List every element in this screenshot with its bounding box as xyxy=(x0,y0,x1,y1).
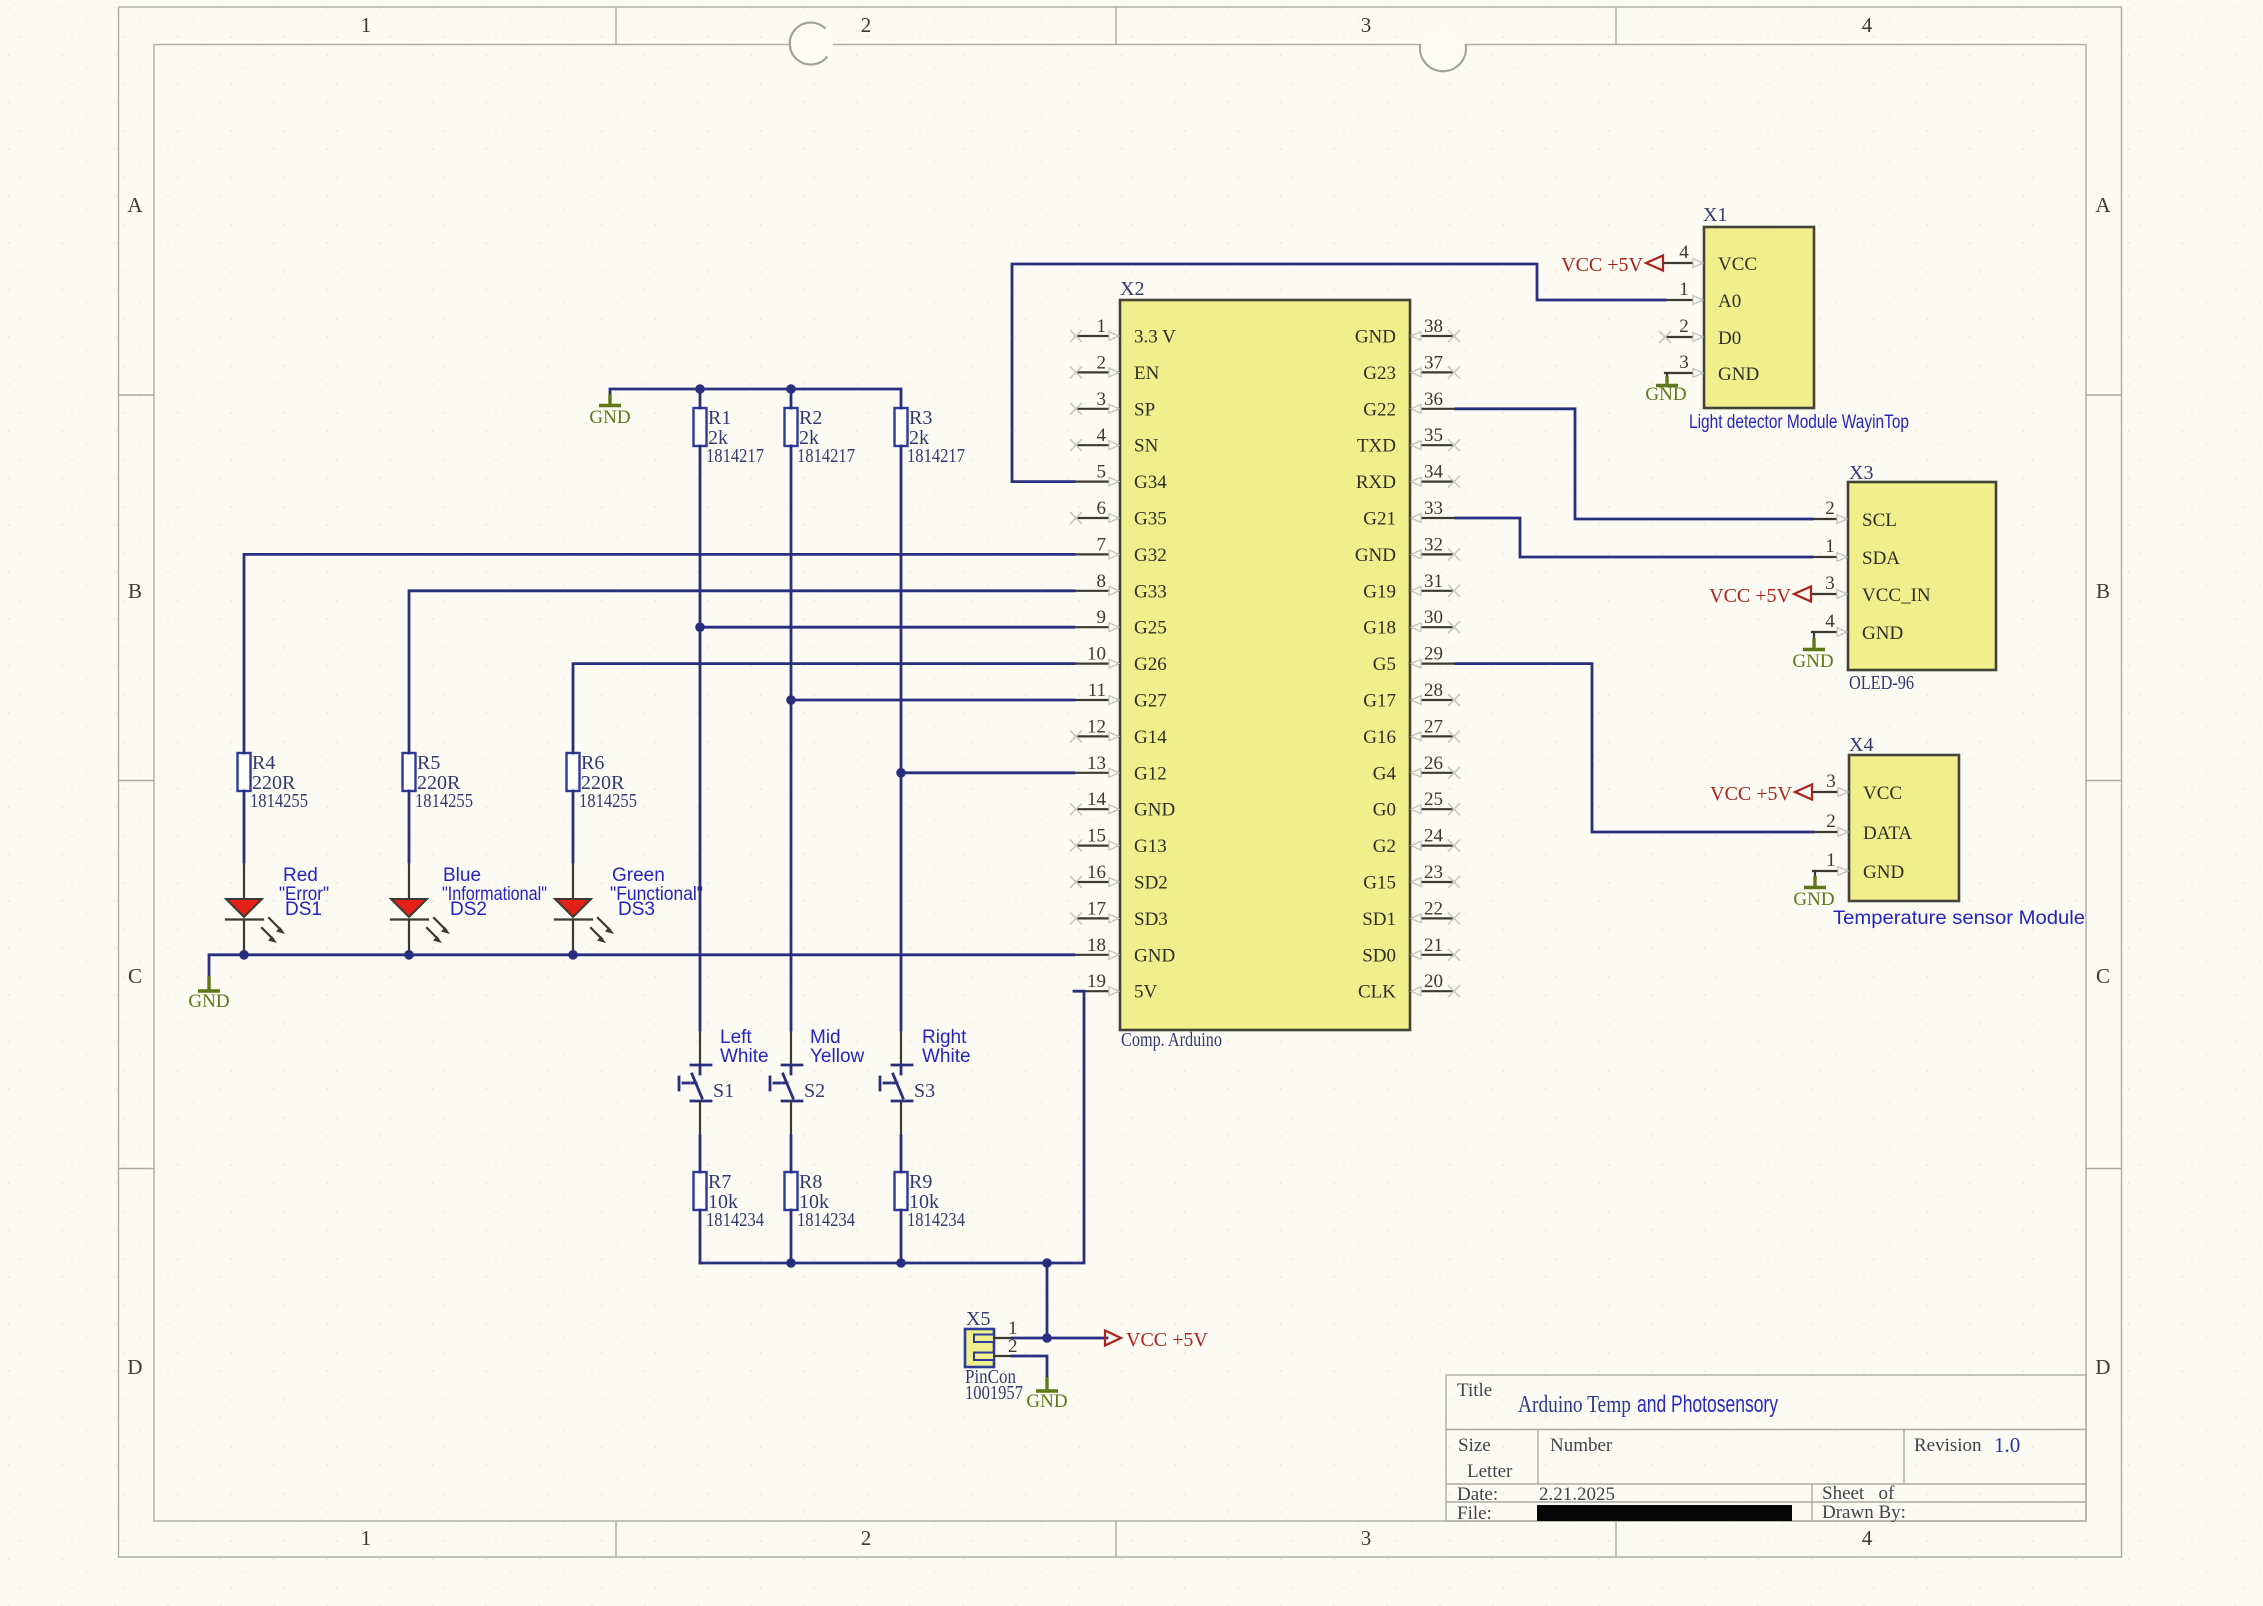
svg-text:28: 28 xyxy=(1424,680,1443,701)
svg-text:G14: G14 xyxy=(1134,727,1167,748)
svg-text:GND: GND xyxy=(1645,384,1686,405)
wire: R4 to LED DS1 xyxy=(243,791,246,862)
svg-text:34: 34 xyxy=(1424,462,1444,483)
svg-text:1814255: 1814255 xyxy=(579,790,637,812)
svg-text:VCC: VCC xyxy=(1718,254,1757,275)
svg-text:1814217: 1814217 xyxy=(797,445,855,467)
svg-text:DS1: DS1 xyxy=(285,899,322,920)
svg-text:Mid: Mid xyxy=(810,1027,841,1048)
svg-text:R2: R2 xyxy=(799,407,822,429)
svg-text:White: White xyxy=(720,1046,769,1067)
wire: X2 pin 10 G26 to R6 xyxy=(573,664,1074,753)
svg-text:Date:: Date: xyxy=(1457,1484,1498,1505)
X4 pin 1 GND xyxy=(1813,850,1904,883)
svg-text:G33: G33 xyxy=(1134,581,1167,602)
module X3 OLED-96 body xyxy=(1848,482,1996,670)
X2 pin 30 G18 xyxy=(1363,607,1460,639)
svg-text:3: 3 xyxy=(1825,573,1835,594)
svg-text:Revision: Revision xyxy=(1914,1435,1982,1456)
svg-text:SD2: SD2 xyxy=(1134,873,1168,894)
svg-text:1814255: 1814255 xyxy=(250,790,308,812)
svg-text:16: 16 xyxy=(1087,862,1106,883)
X4 pin 2 DATA xyxy=(1813,811,1912,844)
svg-text:Left: Left xyxy=(720,1027,752,1048)
svg-text:Right: Right xyxy=(922,1027,967,1048)
svg-text:Drawn By:: Drawn By: xyxy=(1822,1502,1906,1523)
svg-text:3: 3 xyxy=(1361,1526,1372,1550)
switch S1 annotation labels xyxy=(720,1027,769,1067)
VCC +5V supply arrow at X1 pin 4 xyxy=(1561,254,1663,276)
frame row tick marks right xyxy=(2086,395,2122,1169)
svg-text:VCC_IN: VCC_IN xyxy=(1862,585,1931,606)
svg-text:35: 35 xyxy=(1424,425,1443,446)
svg-text:VCC +5V: VCC +5V xyxy=(1126,1329,1208,1351)
svg-text:GND: GND xyxy=(589,407,630,428)
X2 pin 29 G5 xyxy=(1373,644,1454,676)
svg-text:SD3: SD3 xyxy=(1134,909,1168,930)
svg-text:SP: SP xyxy=(1134,399,1155,420)
X1 pin 2 no-connect mark xyxy=(1659,331,1671,343)
svg-text:White: White xyxy=(922,1046,971,1067)
junction top bus at R1 xyxy=(695,384,705,394)
junction LED bus at DS1 xyxy=(239,950,249,960)
switch S2 annotation labels xyxy=(810,1027,865,1067)
svg-text:G22: G22 xyxy=(1363,399,1396,420)
X2 pin 21 SD0 xyxy=(1362,935,1460,967)
svg-text:X4: X4 xyxy=(1849,734,1873,756)
svg-text:SN: SN xyxy=(1134,436,1159,457)
svg-text:GND: GND xyxy=(1355,327,1396,348)
X2 pin 1 3.3 V xyxy=(1070,316,1176,348)
svg-text:11: 11 xyxy=(1088,680,1106,701)
svg-text:26: 26 xyxy=(1424,753,1443,774)
svg-text:C: C xyxy=(2096,964,2110,988)
svg-text:G32: G32 xyxy=(1134,545,1167,566)
svg-text:2: 2 xyxy=(861,13,872,37)
svg-text:RXD: RXD xyxy=(1356,472,1396,493)
svg-text:R7: R7 xyxy=(708,1171,731,1193)
X5 pin 1 xyxy=(994,1318,1018,1339)
X1 pin 4 VCC xyxy=(1665,242,1757,275)
svg-text:1: 1 xyxy=(1826,850,1836,871)
svg-text:Number: Number xyxy=(1550,1435,1613,1456)
svg-text:Size: Size xyxy=(1458,1435,1491,1456)
svg-text:1814255: 1814255 xyxy=(415,790,473,812)
X2 pin 13 G12 xyxy=(1076,753,1167,785)
svg-text:G35: G35 xyxy=(1134,509,1167,530)
title block labels xyxy=(1457,1380,1982,1524)
svg-text:S1: S1 xyxy=(713,1080,734,1102)
svg-text:29: 29 xyxy=(1424,644,1443,665)
svg-text:CLK: CLK xyxy=(1358,982,1396,1003)
svg-text:23: 23 xyxy=(1424,862,1443,883)
svg-text:G16: G16 xyxy=(1363,727,1396,748)
svg-text:R6: R6 xyxy=(581,752,604,774)
wire: top GND bus to R1 R2 R3 xyxy=(610,389,901,408)
X3 pin 2 SCL xyxy=(1812,498,1897,531)
svg-text:1.0: 1.0 xyxy=(1994,1433,2020,1457)
X2 pin 33 G21 xyxy=(1363,498,1454,530)
X2 pin 15 G13 xyxy=(1070,826,1167,858)
svg-text:R1: R1 xyxy=(708,407,731,429)
X2 pin 11 G27 xyxy=(1076,680,1167,712)
svg-text:3: 3 xyxy=(1679,352,1689,373)
svg-text:32: 32 xyxy=(1424,534,1443,555)
svg-text:20: 20 xyxy=(1424,971,1443,992)
svg-text:A0: A0 xyxy=(1718,291,1741,312)
svg-text:1: 1 xyxy=(361,1526,372,1550)
svg-text:GND: GND xyxy=(1793,889,1834,910)
junction bottom bus at X5 drop xyxy=(1042,1258,1052,1268)
svg-text:X5: X5 xyxy=(966,1308,990,1330)
VCC +5V supply arrow at X5 xyxy=(1105,1329,1208,1351)
svg-text:SD0: SD0 xyxy=(1362,945,1396,966)
X3 pin 1 SDA xyxy=(1812,536,1900,569)
svg-text:14: 14 xyxy=(1087,789,1107,810)
svg-text:Yellow: Yellow xyxy=(810,1046,865,1067)
svg-text:2: 2 xyxy=(861,1526,872,1550)
svg-text:GND: GND xyxy=(1718,364,1759,385)
svg-text:D0: D0 xyxy=(1718,328,1741,349)
svg-text:G4: G4 xyxy=(1373,763,1397,784)
svg-text:30: 30 xyxy=(1424,607,1443,628)
wire: bottom 5V bus R7 R8 R9 to X2 pin 19 xyxy=(700,991,1084,1263)
svg-text:3: 3 xyxy=(1826,771,1836,792)
svg-text:DATA: DATA xyxy=(1863,823,1912,844)
switch S3 xyxy=(880,1030,935,1136)
wire: R3 bottom through switch column S3 xyxy=(900,446,903,1263)
wire: X2 pin 36 G22 to X3 SCL xyxy=(1456,409,1812,519)
inner border frame xyxy=(154,45,2086,1522)
svg-text:4: 4 xyxy=(1097,425,1107,446)
svg-text:Blue: Blue xyxy=(443,865,481,886)
svg-text:G27: G27 xyxy=(1134,691,1167,712)
svg-text:36: 36 xyxy=(1424,389,1443,410)
X2 pin 26 G4 xyxy=(1373,753,1460,785)
svg-text:VCC +5V: VCC +5V xyxy=(1561,254,1643,276)
svg-text:EN: EN xyxy=(1134,363,1160,384)
svg-text:G25: G25 xyxy=(1134,618,1167,639)
svg-text:SDA: SDA xyxy=(1862,548,1900,569)
X2 pin 18 GND xyxy=(1076,935,1175,967)
svg-text:37: 37 xyxy=(1424,352,1443,373)
svg-text:1001957: 1001957 xyxy=(965,1382,1023,1404)
svg-text:8: 8 xyxy=(1097,571,1107,592)
junction bottom bus at R9 xyxy=(896,1258,906,1268)
module X1 Light detector body xyxy=(1704,227,1814,408)
connector X5 PinCon body xyxy=(965,1329,994,1367)
svg-text:Comp. Arduino: Comp. Arduino xyxy=(1121,1029,1222,1051)
svg-text:1814217: 1814217 xyxy=(706,445,764,467)
wire: X2 pin 7 G32 to R4 xyxy=(244,554,1074,753)
svg-text:4: 4 xyxy=(1862,1526,1873,1550)
punch hole artifact right xyxy=(1420,25,1466,71)
X2 pin 9 G25 xyxy=(1076,607,1167,639)
svg-text:G5: G5 xyxy=(1373,654,1396,675)
module X4 Temperature sensor body xyxy=(1849,755,1959,901)
X2 pin 35 TXD xyxy=(1357,425,1460,457)
resistor R8 10k xyxy=(785,1171,856,1231)
X1 pin 1 A0 xyxy=(1665,279,1741,312)
svg-text:G19: G19 xyxy=(1363,581,1396,602)
svg-text:17: 17 xyxy=(1087,898,1106,919)
X2 pin 7 G32 xyxy=(1076,534,1167,566)
svg-text:SCL: SCL xyxy=(1862,510,1897,531)
svg-text:Light detector Module WayinTop: Light detector Module WayinTop xyxy=(1689,412,1909,433)
wire: X2 pin 8 G33 to R5 xyxy=(409,591,1074,753)
svg-text:2.21.2025: 2.21.2025 xyxy=(1539,1484,1615,1505)
svg-text:3: 3 xyxy=(1361,13,1372,37)
svg-text:G0: G0 xyxy=(1373,800,1396,821)
X2 pin 22 SD1 xyxy=(1362,898,1460,930)
svg-text:3: 3 xyxy=(1097,389,1107,410)
svg-text:G17: G17 xyxy=(1363,691,1396,712)
wire: X2 pin 9 G25 to switch column S1 xyxy=(700,626,1074,629)
svg-text:R8: R8 xyxy=(799,1171,822,1193)
svg-text:GND: GND xyxy=(188,991,229,1012)
svg-text:R9: R9 xyxy=(909,1171,932,1193)
resistor R9 10k xyxy=(895,1171,966,1231)
frame column tick marks bottom xyxy=(616,1521,1616,1557)
svg-text:38: 38 xyxy=(1424,316,1443,337)
X2 pin 3 SP xyxy=(1070,389,1155,421)
svg-text:2: 2 xyxy=(1825,498,1835,519)
switch S2 xyxy=(770,1030,825,1136)
svg-text:GND: GND xyxy=(1862,623,1903,644)
svg-text:GND: GND xyxy=(1134,945,1175,966)
svg-text:B: B xyxy=(2096,579,2110,603)
LED DS2 annotation labels xyxy=(442,865,547,920)
svg-text:SD1: SD1 xyxy=(1362,909,1396,930)
resistor R4 220R xyxy=(238,752,309,812)
X2 pin 6 G35 xyxy=(1070,498,1167,530)
ground symbol at X5 pin 2 xyxy=(1026,1377,1067,1412)
X2 pin 37 G23 xyxy=(1363,352,1460,384)
svg-text:GND: GND xyxy=(1863,862,1904,883)
svg-text:OLED-96: OLED-96 xyxy=(1849,672,1914,694)
svg-text:G13: G13 xyxy=(1134,836,1167,857)
X2 pin 17 SD3 xyxy=(1070,898,1168,930)
VCC +5V supply arrow at X3 pin 3 xyxy=(1709,585,1811,607)
svg-text:19: 19 xyxy=(1087,971,1106,992)
X2 pin 8 G33 xyxy=(1076,571,1167,603)
wire: R1 bottom through switch column S1 xyxy=(699,446,702,1263)
svg-text:File:: File: xyxy=(1457,1503,1492,1524)
svg-text:D: D xyxy=(127,1355,142,1379)
svg-text:22: 22 xyxy=(1424,898,1443,919)
LED DS3 xyxy=(555,862,614,955)
svg-text:9: 9 xyxy=(1097,607,1107,628)
svg-text:DS2: DS2 xyxy=(450,899,487,920)
wire: bus drop to X5 pin 1 and VCC xyxy=(1012,1263,1107,1338)
svg-text:4: 4 xyxy=(1825,611,1835,632)
LED DS3 annotation labels xyxy=(610,865,703,920)
IC connector X2 Comp. Arduino body xyxy=(1120,300,1410,1030)
X2 pin 19 5V xyxy=(1076,971,1158,1003)
svg-text:B: B xyxy=(128,579,142,603)
svg-text:R3: R3 xyxy=(909,407,932,429)
svg-text:2: 2 xyxy=(1679,316,1689,337)
svg-text:Red: Red xyxy=(283,865,318,886)
svg-text:Letter: Letter xyxy=(1467,1461,1513,1482)
svg-text:25: 25 xyxy=(1424,789,1443,810)
X2 pin 31 G19 xyxy=(1363,571,1460,603)
X5 pin 2 xyxy=(994,1336,1018,1357)
X2 pin 12 G14 xyxy=(1070,716,1167,748)
X2 pin 14 GND xyxy=(1070,789,1175,821)
resistor R6 220R xyxy=(567,752,638,812)
svg-text:6: 6 xyxy=(1097,498,1107,519)
svg-text:Sheet of: Sheet of xyxy=(1822,1483,1895,1504)
frame column tick marks top xyxy=(616,7,1616,45)
svg-text:5: 5 xyxy=(1097,462,1107,483)
svg-text:1814234: 1814234 xyxy=(706,1209,764,1231)
svg-text:4: 4 xyxy=(1679,242,1689,263)
svg-text:15: 15 xyxy=(1087,826,1106,847)
svg-text:10: 10 xyxy=(1087,644,1106,665)
VCC +5V supply arrow at X4 pin 3 xyxy=(1710,783,1812,805)
svg-text:18: 18 xyxy=(1087,935,1106,956)
resistor R2 2k xyxy=(785,407,856,467)
redaction bar over file name xyxy=(1537,1505,1792,1521)
ground symbol at X1 pin 3 xyxy=(1645,373,1686,405)
svg-text:1: 1 xyxy=(1825,536,1835,557)
LED DS1 xyxy=(226,862,285,955)
svg-text:33: 33 xyxy=(1424,498,1443,519)
X2 pin 32 GND xyxy=(1355,534,1460,566)
svg-text:VCC: VCC xyxy=(1863,783,1902,804)
svg-text:Arduino Temp: Arduino Temp xyxy=(1518,1392,1631,1418)
svg-text:3.3 V: 3.3 V xyxy=(1134,327,1176,348)
X2 pin 27 G16 xyxy=(1363,716,1460,748)
svg-text:G23: G23 xyxy=(1363,363,1396,384)
LED DS1 annotation labels xyxy=(279,865,329,920)
LED DS2 xyxy=(391,862,450,955)
svg-text:X3: X3 xyxy=(1849,462,1873,484)
resistor R7 10k xyxy=(694,1171,765,1231)
svg-text:13: 13 xyxy=(1087,753,1106,774)
wire: LED ground bus to X2 pin 18 GND xyxy=(209,955,1074,977)
wire: R6 to LED DS3 xyxy=(572,791,575,862)
wire: X2 pin 11 G27 to switch column S2 xyxy=(791,699,1074,702)
svg-text:X1: X1 xyxy=(1703,204,1727,226)
svg-text:GND: GND xyxy=(1026,1391,1067,1412)
svg-text:2: 2 xyxy=(1826,811,1836,832)
wire: X2 pin 5 G34 to X1 A0 xyxy=(1012,264,1665,482)
svg-text:D: D xyxy=(2095,1355,2110,1379)
ground symbol at X4 pin 1 xyxy=(1793,871,1834,910)
X3 pin 3 VCC_IN xyxy=(1812,573,1931,606)
X2 pin 10 G26 xyxy=(1076,644,1167,676)
wire: X5 pin 2 to ground xyxy=(1012,1356,1047,1377)
punch hole artifact left xyxy=(790,23,833,65)
svg-text:R5: R5 xyxy=(417,752,440,774)
svg-text:C: C xyxy=(128,964,142,988)
svg-text:R4: R4 xyxy=(252,752,275,774)
junction X5 pin 1 node xyxy=(1042,1333,1052,1343)
X2 pin 34 RXD xyxy=(1356,462,1460,494)
ground symbol bottom left xyxy=(188,976,229,1012)
svg-text:TXD: TXD xyxy=(1357,436,1396,457)
switch S1 xyxy=(679,1030,734,1136)
svg-text:VCC +5V: VCC +5V xyxy=(1709,585,1791,607)
svg-text:24: 24 xyxy=(1424,826,1444,847)
svg-text:27: 27 xyxy=(1424,716,1443,737)
svg-text:VCC +5V: VCC +5V xyxy=(1710,783,1792,805)
X3 pin 4 GND xyxy=(1812,611,1903,644)
X2 pin 36 G22 xyxy=(1363,389,1454,421)
wire: X2 pin 33 G21 to X3 SDA xyxy=(1456,518,1812,557)
X2 pin 4 SN xyxy=(1070,425,1159,457)
svg-text:A: A xyxy=(2095,193,2111,217)
svg-text:1: 1 xyxy=(1679,279,1689,300)
resistor R3 2k xyxy=(895,407,966,467)
wire: X2 pin 13 G12 to switch column S3 xyxy=(901,771,1074,774)
ground symbol at X3 pin 4 xyxy=(1792,632,1833,672)
svg-text:G21: G21 xyxy=(1363,509,1396,530)
frame row tick marks left xyxy=(119,395,155,1169)
switch S3 annotation labels xyxy=(922,1027,971,1067)
svg-text:and Photosensory: and Photosensory xyxy=(1637,1391,1778,1418)
svg-text:DS3: DS3 xyxy=(618,899,655,920)
svg-text:GND: GND xyxy=(1134,800,1175,821)
junction LED bus at DS2 xyxy=(404,950,414,960)
svg-text:G12: G12 xyxy=(1134,763,1167,784)
svg-text:G26: G26 xyxy=(1134,654,1167,675)
X4 pin 3 VCC xyxy=(1813,771,1902,804)
X2 pin 2 EN xyxy=(1070,352,1160,384)
svg-text:1814234: 1814234 xyxy=(797,1209,855,1231)
X2 pin 23 G15 xyxy=(1363,862,1460,894)
svg-text:Title: Title xyxy=(1457,1380,1492,1401)
wire: R5 to LED DS2 xyxy=(408,791,411,862)
svg-text:2: 2 xyxy=(1097,352,1107,373)
X2 pin 24 G2 xyxy=(1373,826,1460,858)
svg-text:Green: Green xyxy=(612,865,665,886)
junction bottom bus at R8 xyxy=(786,1258,796,1268)
svg-text:Temperature sensor Module: Temperature sensor Module xyxy=(1833,908,2085,929)
svg-text:A: A xyxy=(127,193,143,217)
wire: X2 pin 29 G5 to X4 DATA xyxy=(1456,664,1813,832)
X2 pin 5 G34 xyxy=(1076,462,1167,494)
junction LED bus at DS3 xyxy=(568,950,578,960)
svg-text:1814234: 1814234 xyxy=(907,1209,965,1231)
svg-text:G18: G18 xyxy=(1363,618,1396,639)
svg-text:GND: GND xyxy=(1355,545,1396,566)
junction top bus at R2 xyxy=(786,384,796,394)
svg-text:1814217: 1814217 xyxy=(907,445,965,467)
X1 pin 3 GND xyxy=(1665,352,1759,385)
X2 pin 25 G0 xyxy=(1373,789,1460,821)
svg-text:X2: X2 xyxy=(1120,278,1144,300)
svg-text:1: 1 xyxy=(1097,316,1107,337)
svg-text:21: 21 xyxy=(1424,935,1443,956)
wire: R2 bottom through switch column S2 xyxy=(790,446,793,1263)
X1 pin 2 D0 xyxy=(1665,316,1741,349)
X2 pin 38 GND xyxy=(1355,316,1460,348)
X2 pin 20 CLK xyxy=(1358,971,1460,1003)
svg-text:S3: S3 xyxy=(914,1080,935,1102)
svg-text:5V: 5V xyxy=(1134,982,1158,1003)
svg-text:12: 12 xyxy=(1087,716,1106,737)
svg-text:S2: S2 xyxy=(804,1080,825,1102)
svg-text:G15: G15 xyxy=(1363,873,1396,894)
title block frame xyxy=(1446,1375,2086,1521)
svg-text:G34: G34 xyxy=(1134,472,1167,493)
resistor R1 2k xyxy=(694,407,765,467)
svg-text:4: 4 xyxy=(1862,13,1873,37)
X2 pin 28 G17 xyxy=(1363,680,1460,712)
